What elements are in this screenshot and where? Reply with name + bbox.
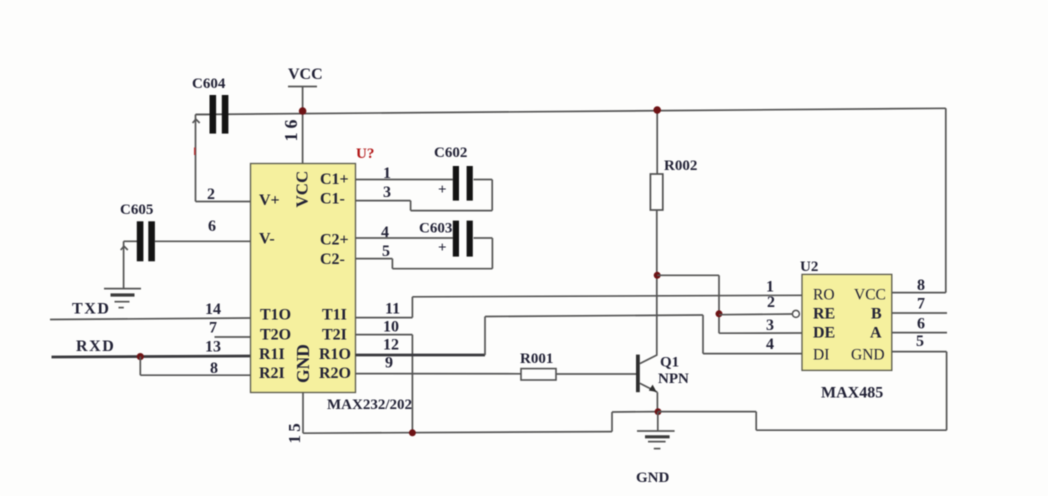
svg-text:B: B — [871, 306, 882, 323]
svg-text:T1O: T1O — [260, 307, 291, 324]
svg-text:T2O: T2O — [260, 327, 291, 344]
svg-text:9: 9 — [385, 355, 393, 372]
svg-text:RE: RE — [813, 306, 835, 323]
svg-text:6: 6 — [208, 218, 216, 235]
svg-text:10: 10 — [383, 319, 399, 336]
svg-text:7: 7 — [917, 296, 925, 313]
svg-text:C603: C603 — [419, 221, 452, 237]
svg-text:U?: U? — [356, 146, 374, 162]
svg-text:GND: GND — [851, 347, 885, 364]
svg-text:V+: V+ — [259, 192, 280, 209]
svg-text:5: 5 — [916, 333, 924, 350]
svg-text:R1I: R1I — [259, 346, 285, 363]
svg-text:+: + — [438, 182, 447, 198]
svg-text:5: 5 — [382, 243, 390, 260]
svg-text:C1+: C1+ — [320, 171, 349, 188]
svg-text:8: 8 — [210, 360, 218, 377]
svg-text:3: 3 — [766, 317, 774, 334]
svg-text:15: 15 — [285, 420, 304, 443]
svg-text:Q1: Q1 — [660, 355, 679, 371]
svg-text:GND: GND — [293, 344, 313, 383]
svg-text:U2: U2 — [800, 259, 818, 275]
svg-text:14: 14 — [205, 301, 221, 318]
svg-text:VCC: VCC — [293, 171, 312, 208]
svg-text:RO: RO — [813, 287, 835, 304]
svg-text:NPN: NPN — [658, 371, 689, 387]
svg-text:11: 11 — [385, 301, 400, 318]
svg-text:V-: V- — [259, 231, 275, 248]
svg-text:A: A — [870, 325, 882, 342]
svg-text:6: 6 — [917, 316, 925, 333]
svg-text:C602: C602 — [434, 145, 467, 161]
svg-text:2: 2 — [767, 294, 775, 311]
svg-text:DI: DI — [813, 347, 829, 364]
svg-text:R001: R001 — [520, 351, 553, 367]
svg-text:VCC: VCC — [854, 287, 886, 304]
svg-text:T2I: T2I — [322, 327, 347, 344]
svg-text:1: 1 — [766, 279, 774, 296]
svg-text:2: 2 — [207, 186, 215, 203]
svg-text:RXD: RXD — [76, 338, 115, 355]
svg-text:R2O: R2O — [319, 365, 351, 382]
svg-text:4: 4 — [766, 336, 774, 353]
svg-text:3: 3 — [383, 184, 391, 201]
svg-text:R2I: R2I — [259, 365, 285, 382]
svg-text:GND: GND — [636, 470, 670, 486]
svg-text:T1I: T1I — [322, 307, 347, 324]
svg-text:C604: C604 — [192, 76, 226, 92]
svg-text:VCC: VCC — [288, 66, 323, 83]
svg-text:7: 7 — [209, 320, 217, 337]
svg-text:C605: C605 — [120, 202, 153, 218]
svg-text:TXD: TXD — [72, 301, 111, 318]
svg-text:DE: DE — [813, 325, 835, 342]
svg-text:C1-: C1- — [320, 191, 345, 208]
svg-text:12: 12 — [383, 337, 399, 354]
svg-text:MAX232/202: MAX232/202 — [327, 397, 412, 413]
svg-text:R1O: R1O — [319, 346, 351, 363]
svg-text:MAX485: MAX485 — [821, 385, 883, 402]
svg-text:16: 16 — [281, 116, 301, 142]
svg-text:+: + — [438, 240, 447, 256]
svg-text:R002: R002 — [664, 158, 697, 174]
svg-text:C2+: C2+ — [320, 232, 349, 249]
svg-text:C2-: C2- — [320, 251, 345, 268]
svg-text:8: 8 — [917, 277, 925, 294]
svg-text:13: 13 — [205, 339, 221, 356]
